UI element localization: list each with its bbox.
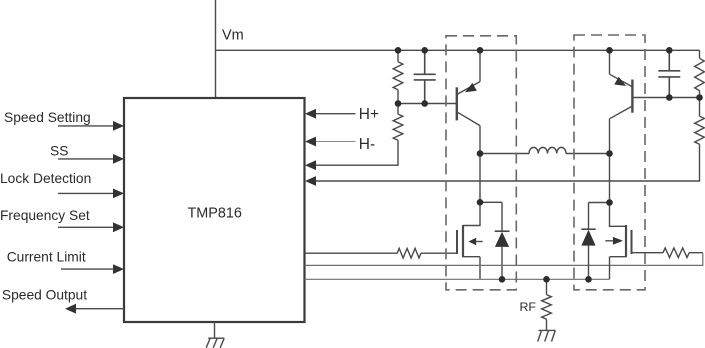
- resistor RG1 (left gate series) with gate wire: [305, 248, 457, 258]
- transistor Q1 collector: [457, 112, 480, 154]
- transistor M2 gate bar: [631, 230, 633, 254]
- resistor RG2 (right gate series) with gate wire: [632, 248, 703, 258]
- transistor Q2 collector: [610, 106, 633, 154]
- wire Lock Detection: [58, 192, 114, 194]
- junction dot right source node: [585, 276, 592, 283]
- junction dot right drain node: [606, 199, 613, 206]
- transistor M2 (right low side NMOS) drain lead: [610, 203, 627, 227]
- arrowhead Speed Setting into U1: [113, 121, 124, 131]
- arrowhead H- into U1: [305, 137, 316, 147]
- svg-text:RF: RF: [520, 300, 537, 314]
- transistor Q1 (PNP, left high side) base bar: [456, 87, 458, 120]
- transistor Q1 emitter: [457, 50, 480, 94]
- junction dot left source node: [499, 276, 506, 283]
- ground (U1) symbol: [206, 338, 224, 348]
- wire left leg collector to drain: [479, 154, 481, 203]
- wire right base line: [633, 97, 700, 99]
- transistor M1 gate bar: [456, 230, 458, 254]
- svg-text:SS: SS: [50, 144, 68, 159]
- diode D1 triangle: [495, 232, 509, 247]
- transistor M1 body arrow: [476, 241, 483, 243]
- wire right gate drive line: [305, 253, 703, 266]
- wire Speed Output: [76, 308, 124, 310]
- svg-text:Vm: Vm: [222, 28, 244, 44]
- diode D1 anode wire: [501, 247, 503, 279]
- resistor R2 (left lower, base node down): [393, 104, 403, 141]
- resistor R4 (right lower, base node down): [695, 98, 705, 145]
- junction dot left cap base node: [421, 100, 428, 107]
- junction dot left motor node: [477, 150, 484, 157]
- junction dot rail x=609.5: [606, 47, 613, 54]
- transistor M2 source lead: [610, 257, 627, 280]
- transistor M1 source lead: [463, 257, 480, 280]
- wire Vm rail: [216, 49, 700, 51]
- wire Frequency Set: [58, 226, 114, 228]
- wire SS: [58, 158, 114, 160]
- transistor Q1 emitter arrow: [465, 83, 477, 92]
- arrowhead divider sense into U1: [305, 160, 316, 170]
- IC U1 TMP816 block: [124, 98, 305, 322]
- diode D1 (left body diode) top wire: [480, 202, 502, 231]
- diode D2 cathode bar: [581, 228, 595, 230]
- wire H+ stub: [316, 113, 356, 115]
- arrowhead right divider sense into U1: [305, 176, 316, 186]
- junction dot rail x=480: [477, 47, 484, 54]
- ground (RF): [538, 330, 556, 341]
- arrowhead Frequency Set into U1: [113, 222, 124, 232]
- junction dot rail x=398: [395, 47, 402, 54]
- transistor M2 channel bar: [625, 225, 627, 257]
- resistor R1 (left upper, Vm to base node): [393, 50, 403, 103]
- transistor M1 (left low side NMOS) drain lead: [463, 202, 480, 225]
- capacitor C1 (left): [414, 50, 436, 103]
- transistor Q2 (PNP, right high side) base bar: [631, 80, 633, 113]
- junction dot RF node: [543, 276, 550, 283]
- svg-text:Speed Setting: Speed Setting: [4, 110, 91, 125]
- diode D2 anode wire: [588, 246, 590, 280]
- svg-text:H-: H-: [359, 136, 375, 153]
- svg-text:Speed Output: Speed Output: [2, 288, 87, 303]
- svg-text:H+: H+: [359, 106, 379, 123]
- wire Speed Setting: [58, 125, 114, 127]
- diode D1 cathode bar: [495, 230, 510, 232]
- wire H- stub: [316, 141, 356, 143]
- wire left base line: [398, 103, 456, 105]
- svg-text:Current Limit: Current Limit: [7, 249, 86, 264]
- inductor L1 (motor winding): [480, 147, 610, 153]
- arrowhead Lock Detection into U1: [113, 189, 124, 199]
- wire source return line: [305, 278, 610, 280]
- wire Current Limit: [61, 268, 114, 270]
- junction dot right divider node: [696, 94, 703, 101]
- diode D2 (right body diode) top wire: [589, 203, 610, 230]
- junction dot rail x=669.3: [666, 47, 673, 54]
- capacitor C2 (right): [658, 50, 680, 97]
- ground (U1) stem: [214, 322, 216, 338]
- junction dot left drain node: [477, 199, 484, 206]
- arrowhead H+ into U1: [305, 109, 316, 119]
- wire Vm vertical supply drop: [215, 0, 217, 98]
- junction dot right motor node: [606, 150, 613, 157]
- junction dot left base node: [395, 100, 402, 107]
- wire feedback from right resistor divider to U1: [316, 144, 700, 181]
- wire right leg collector to drain: [609, 154, 611, 203]
- svg-text:Frequency Set: Frequency Set: [0, 208, 90, 223]
- resistor RF: [542, 279, 552, 330]
- dashed enclosure right leg: [574, 35, 645, 290]
- arrowhead SS into U1: [113, 154, 124, 164]
- transistor M1 channel bar: [462, 225, 464, 257]
- svg-text:Lock Detection: Lock Detection: [0, 171, 91, 186]
- transistor Q2 emitter: [610, 50, 633, 87]
- svg-text:TMP816: TMP816: [188, 206, 242, 222]
- diode D2 triangle: [581, 230, 595, 246]
- junction dot right cap base node: [666, 94, 673, 101]
- junction dot rail x=424.7: [421, 47, 428, 54]
- arrowhead Speed Output out of U1: [65, 304, 76, 314]
- resistor R3 (right upper, Vm to base node): [695, 50, 705, 97]
- arrowhead Current Limit into U1: [113, 264, 124, 274]
- wire feedback from left resistor divider to U1: [316, 140, 398, 165]
- transistor M2 body arrow: [605, 240, 613, 242]
- transistor Q2 emitter arrow: [614, 77, 626, 86]
- dashed enclosure left leg: [446, 36, 516, 290]
